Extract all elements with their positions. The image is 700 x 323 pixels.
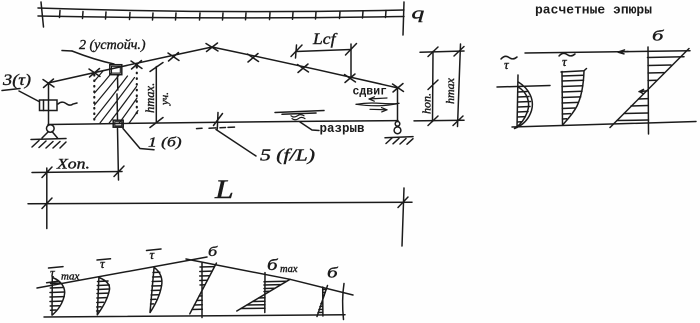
- tau diagram (B): [561, 69, 587, 125]
- svg-text:б: б: [652, 28, 665, 44]
- svg-text:hmax.: hmax.: [143, 83, 157, 113]
- bottom row: rising roof line: [37, 257, 207, 288]
- label tau (A): [501, 56, 517, 72]
- svg-text:hmax: hmax: [443, 77, 457, 104]
- svg-text:б: б: [208, 244, 218, 260]
- label 2 (ustoych) with curved leader: [62, 38, 146, 64]
- svg-text:τ: τ: [100, 256, 106, 271]
- pin support (left): [31, 125, 66, 148]
- clamp symbol 3: [40, 100, 78, 111]
- label tau (D3): [147, 247, 162, 262]
- dimension block h_op and h_max (right): [414, 44, 464, 127]
- roller support (right): [385, 122, 413, 145]
- label tau (B): [559, 53, 575, 69]
- bottom row: descending roof line: [186, 259, 353, 295]
- svg-text:q: q: [412, 4, 425, 23]
- top chord: [48, 47, 398, 88]
- svg-text:τ: τ: [504, 57, 510, 72]
- diagram sigma (D6, small bowtie): [317, 286, 328, 317]
- svg-text:Xоп.: Xоп.: [56, 155, 90, 172]
- label razryv: [300, 122, 365, 136]
- hatched panel region: [94, 67, 138, 123]
- label 5 (f/L): [216, 130, 315, 165]
- label tau_max (D1): [49, 265, 80, 283]
- bottom row: baseline: [44, 315, 345, 317]
- svg-text:max: max: [280, 264, 298, 275]
- bottom row: right end bar: [343, 284, 344, 320]
- svg-text:уч.: уч.: [159, 92, 171, 106]
- label sigma_max (D5): [267, 256, 298, 275]
- dimension X_op: [32, 155, 124, 229]
- diagram tau (D3): [150, 267, 162, 313]
- svg-text:3(τ): 3(τ): [2, 71, 31, 89]
- diagram sigma (D4, bowtie): [190, 263, 217, 317]
- svg-text:1 (б): 1 (б): [148, 135, 182, 150]
- dimension h max: [143, 63, 171, 128]
- svg-text:L: L: [214, 175, 234, 204]
- break (razryv) symbol on bottom chord: [275, 111, 324, 120]
- svg-text:Lcf: Lcf: [312, 30, 338, 48]
- dimension L: [28, 175, 412, 246]
- svg-text:сдвиг: сдвиг: [353, 86, 388, 99]
- svg-text:τ: τ: [562, 54, 568, 69]
- svg-text:2 (устойч.): 2 (устойч.): [79, 38, 146, 53]
- label 3(tau): [2, 71, 39, 101]
- bottom chord: [48, 121, 398, 125]
- label 1 (sigma): [123, 129, 182, 150]
- node X marks on top chord: [43, 43, 404, 92]
- svg-text:б: б: [267, 256, 278, 274]
- node 5 mark on bottom chord: [197, 113, 235, 130]
- svg-text:5 (f/L): 5 (f/L): [260, 147, 315, 165]
- distributed load q : top line: [38, 2, 404, 35]
- dimension Lcf: [291, 30, 357, 77]
- right diagrams: bottom reference line: [512, 122, 696, 128]
- node 1 square (bottom): [113, 120, 123, 127]
- right diagrams: top reference line: [525, 50, 690, 54]
- vertical member between node 2 and node 1: [117, 76, 119, 90]
- diagram tau_max (D1): [47, 277, 65, 315]
- small tau diagram (A): [497, 75, 550, 129]
- svg-text:расчетные эпюры: расчетные эпюры: [535, 3, 652, 18]
- node 2 square (top): [110, 65, 122, 75]
- svg-text:hоп.: hоп.: [420, 93, 434, 114]
- svg-text:разрыв: разрыв: [320, 122, 365, 136]
- svg-text:б: б: [327, 264, 339, 280]
- right vertical member: [397, 89, 399, 122]
- diagram tau (D2): [97, 277, 110, 315]
- diagram sigma_max (D5, bowtie): [237, 273, 290, 313]
- svg-text:max: max: [61, 271, 79, 283]
- label sdvig with arrows: [353, 86, 400, 112]
- extension of member below node 1: [118, 129, 119, 181]
- sigma diagram (C): [610, 47, 689, 134]
- label tau (D2): [97, 256, 111, 271]
- left vertical member: [48, 83, 50, 125]
